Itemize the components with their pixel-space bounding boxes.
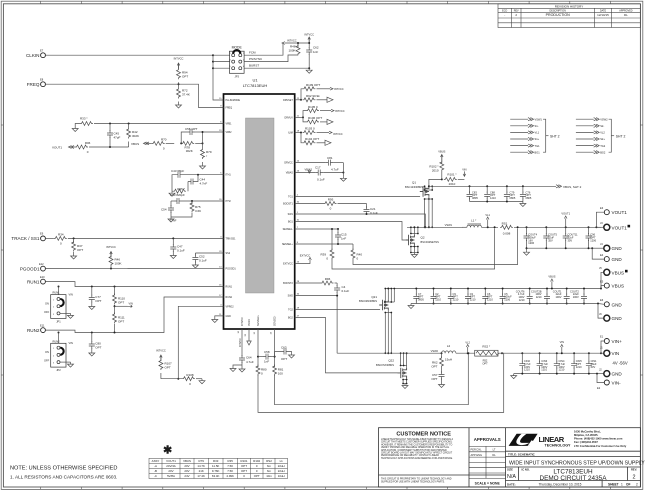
svg-text:GND: GND [612, 316, 623, 321]
svg-text:VBUS: VBUS [612, 270, 625, 275]
wire Q22 source bus to ground [406, 378, 408, 383]
svg-text:NOTE: UNLESS OTHERWISE SPECIFI: NOTE: UNLESS OTHERWISE SPECIFIED [10, 465, 117, 471]
resistor R106 OPT [303, 117, 306, 122]
transistor Q1 BSC123N08NS [420, 186, 429, 196]
svg-text:C58: C58 [264, 350, 270, 354]
svg-text:S2+: S2+ [600, 137, 605, 141]
capacitor C63 OPT [275, 352, 281, 357]
svg-text:1: 1 [53, 300, 54, 302]
svg-text:TECHNOLOGY APPLICATIONS ENGINE: TECHNOLOGY APPLICATIONS ENGINEERING FOR … [381, 457, 453, 460]
svg-text:C17: C17 [315, 166, 321, 170]
open arrow (R106) [327, 119, 333, 124]
svg-text:R104 OPT: R104 OPT [305, 137, 319, 141]
capacitor C79 OPT 0805 [506, 186, 508, 193]
wire VBUS rail [386, 288, 601, 290]
svg-text:0.1uF: 0.1uF [317, 177, 325, 181]
capacitor C4 0.1uF boost2 [336, 283, 338, 286]
wire VSW2 rail [337, 352, 441, 354]
svg-text:C62: C62 [313, 46, 319, 50]
terminal E6 GND [598, 303, 604, 306]
INTVCC rail to R48/C62 [285, 42, 309, 44]
svg-text:VIN-: VIN- [612, 381, 622, 386]
svg-text:0805: 0805 [526, 196, 532, 200]
power flag INTVCC [308, 37, 311, 43]
capacitor C5 100uF 1206 [500, 289, 506, 304]
svg-text:FREQ: FREQ [27, 82, 40, 87]
resistor R103 0 [303, 131, 316, 135]
svg-text:C53 820pF: C53 820pF [170, 193, 185, 197]
svg-text:3: 3 [53, 363, 54, 365]
wire VFB1 [94, 123, 224, 125]
svg-text:15uH: 15uH [445, 358, 452, 362]
svg-text:LTC7813EUH: LTC7813EUH [243, 83, 268, 88]
svg-text:DESCRIPTION: DESCRIPTION [550, 9, 567, 12]
resistor R40 0 (sense1+ filter) [352, 244, 354, 250]
wire FREQ [45, 84, 223, 107]
svg-text:PGOOD1: PGOOD1 [226, 267, 237, 270]
svg-text:R102: R102 [253, 459, 260, 463]
svg-text:CLKIN: CLKIN [26, 53, 40, 58]
resistor R06 0 [75, 145, 88, 149]
wire SW2 [295, 296, 337, 354]
open arrow (R104) [325, 140, 331, 145]
terminal J3 VOUT1 [596, 226, 603, 228]
svg-text:R06: R06 [85, 141, 91, 145]
svg-text:R106 OPT: R106 OPT [308, 116, 322, 120]
svg-text:4: 4 [243, 59, 244, 61]
svg-text:35V: 35V [568, 238, 573, 242]
svg-text:1nF: 1nF [341, 237, 346, 241]
wire TG1 to Q1 gate [295, 196, 420, 198]
svg-text:RUN1: RUN1 [52, 291, 60, 295]
svg-text:100K: 100K [288, 49, 295, 53]
capacitor C44 4.7nF [196, 175, 198, 182]
resistor R108 0 [182, 377, 195, 381]
svg-text:APPROVALS: APPROVALS [474, 437, 501, 442]
svg-text:CUSTOMER NOTICE: CUSTOMER NOTICE [396, 432, 451, 438]
svg-text:10uH: 10uH [278, 474, 285, 478]
svg-text:PRODUCTION: PRODUCTION [546, 13, 571, 17]
power flag VBUS [551, 282, 553, 289]
svg-text:LINEAR TECHNOLOGY HAS MADE A B: LINEAR TECHNOLOGY HAS MADE A BEST EFFORT… [381, 438, 453, 441]
terminal E1 VIN+ [601, 341, 604, 353]
wire VOUT gnd rail [527, 247, 593, 249]
resistor R46 100K [109, 255, 113, 266]
svg-text:FREQ: FREQ [226, 107, 233, 110]
svg-text:302K: 302K [186, 149, 193, 153]
open arrow (R92) [327, 97, 333, 102]
capacitor COUT5 22uF [545, 227, 547, 234]
svg-text:SUPPLIED FOR USE WITH LINEAR T: SUPPLIED FOR USE WITH LINEAR TECHNOLOGY … [381, 480, 445, 483]
wire bus to PLLIN/MODE pin [213, 68, 224, 100]
svg-text:EXTVCC: EXTVCC [300, 253, 311, 257]
svg-text:R33: R33 [213, 459, 219, 463]
svg-text:CIRCUIT BOARD LAYOUT MAY SIGNI: CIRCUIT BOARD LAYOUT MAY SIGNIFICANTLY A… [381, 452, 453, 455]
svg-text:63.4K: 63.4K [212, 474, 220, 478]
wire BOOST2 / resistor R96 [295, 282, 321, 284]
svg-text:1206: 1206 [528, 241, 534, 245]
capacitor C64 4.7uF [239, 355, 245, 363]
svg-text:OPT: OPT [165, 366, 171, 370]
svg-text:BG1: BG1 [535, 150, 541, 154]
svg-text:OF: OF [626, 483, 630, 487]
svg-text:BURST: BURST [249, 64, 259, 68]
U1 bottom pin names (rotated) [241, 315, 277, 326]
svg-text:INTVCC: INTVCC [156, 349, 166, 353]
wire sense2+ kelvin loop (outer) [258, 353, 504, 412]
svg-text:INTVCC: INTVCC [174, 57, 184, 61]
capacitor C62 1nF [308, 43, 310, 48]
svg-text:THIS CIRCUIT IS PROPRIETARY TO: THIS CIRCUIT IS PROPRIETARY TO LINEAR TE… [381, 478, 452, 481]
svg-text:INTVCC: INTVCC [241, 317, 244, 326]
svg-text:ITH1: ITH1 [226, 174, 232, 177]
svg-text:E12: E12 [39, 262, 44, 266]
svg-text:OPT: OPT [281, 357, 287, 361]
svg-text:OPT: OPT [95, 299, 101, 303]
svg-text:VOUT1: VOUT1 [612, 210, 628, 215]
svg-text:2: 2 [243, 53, 244, 55]
svg-text:1210: 1210 [576, 365, 582, 369]
svg-text:R101 *: R101 * [447, 173, 457, 177]
svg-text:C55 OPT: C55 OPT [185, 127, 198, 131]
ground ITH2 network [168, 217, 174, 222]
svg-text:OPT: OPT [182, 75, 188, 79]
capacitor C96 OPT 1206 [588, 227, 590, 234]
svg-text:4.7nF: 4.7nF [200, 182, 208, 186]
svg-text:DEMO CIRCUIT 2435A: DEMO CIRCUIT 2435A [539, 475, 607, 482]
svg-text:R96: R96 [325, 277, 331, 281]
svg-text:6m: 6m [267, 464, 272, 468]
capacitor C57 OPT [439, 372, 445, 380]
capacitor C55 OPT [181, 132, 187, 143]
wire SW1 [295, 214, 426, 227]
resistor R94 OPT [177, 68, 181, 79]
wire DRVUV [295, 116, 303, 118]
svg-text:OPT: OPT [95, 346, 101, 350]
svg-text:TG2: TG2 [288, 308, 293, 311]
terminal E4 GND [592, 248, 604, 259]
wire R107 to R108 [161, 378, 182, 380]
svg-text:C64: C64 [246, 356, 252, 360]
svg-text:1210: 1210 [524, 368, 530, 372]
svg-text:ON: ON [45, 302, 49, 306]
capacitor CIN3 4.7uF 100V [537, 353, 543, 373]
capacitor C2 OPT 1210 [431, 289, 437, 304]
node VL1 flag [482, 226, 499, 228]
svg-text:VSW1: VSW1 [535, 117, 543, 121]
svg-text:0805: 0805 [418, 298, 424, 302]
zone ticks left/right [1, 124, 3, 126]
svg-text:1206: 1206 [590, 238, 596, 242]
svg-text:R79: R79 [199, 459, 205, 463]
wire TG2 to Q21 gate [295, 308, 380, 310]
svg-text:SENSE2-: SENSE2- [274, 316, 277, 326]
svg-text:VIN: VIN [69, 292, 73, 296]
wire BG2 to Q22 gate [295, 318, 398, 373]
svg-text:TG1: TG1 [288, 196, 293, 199]
svg-text:100V: 100V [555, 295, 561, 299]
svg-text:1210: 1210 [435, 298, 441, 302]
node VL2 flag [456, 352, 475, 354]
CIN labels [524, 359, 597, 371]
capacitor C7 OPT 0805 [413, 289, 419, 304]
svg-text:TG1: TG1 [535, 144, 541, 148]
wire sense2- kelvin loop (inner) [275, 353, 470, 405]
terminal J4 GND [592, 247, 603, 249]
wire VFB2 [203, 132, 224, 143]
svg-text:U1: U1 [252, 78, 258, 83]
svg-text:LTC Confidential-For Customer: LTC Confidential-For Customer Use Only [574, 444, 627, 448]
svg-text:SHT 2: SHT 2 [550, 134, 560, 138]
svg-text:GND: GND [612, 257, 623, 262]
capacitor C80 OPT [91, 333, 93, 343]
svg-text:PGOOD1: PGOOD1 [20, 266, 40, 271]
ground below R72 [176, 103, 182, 108]
ground below R37 [71, 254, 77, 259]
wire Q22 drain bus to VSW2 [406, 353, 408, 368]
svg-text:VBUS: VBUS [131, 142, 139, 146]
svg-text:✱: ✱ [163, 445, 172, 457]
svg-text:DL: DL [624, 13, 628, 17]
svg-text:VBUS: VBUS [612, 284, 625, 289]
ground below C62 [306, 68, 312, 73]
wire JP3 left bus [212, 55, 214, 68]
wire VBUS gnd rail [411, 303, 598, 305]
wire VSW1 rail to L1 [407, 226, 463, 228]
svg-text:CIRCUIT THAT MEETS CUSTOMER-SU: CIRCUIT THAT MEETS CUSTOMER-SUPPLIED SPE… [381, 441, 453, 444]
svg-text:R35 *: R35 * [177, 187, 185, 191]
svg-text:VL2: VL2 [600, 131, 605, 135]
svg-text:VOUT1: VOUT1 [52, 146, 62, 150]
svg-text:C63: C63 [281, 346, 287, 350]
svg-text:E4: E4 [600, 253, 604, 257]
wire JP3 left pins [213, 54, 230, 56]
resistor R102* 2010 [441, 171, 443, 179]
svg-text:OPT: OPT [431, 365, 437, 369]
terminal J6 GND [598, 304, 603, 319]
wire SS1 [68, 237, 224, 239]
VBUS cap labels [418, 289, 579, 301]
svg-text:BSC042NE7NS: BSC042NE7NS [421, 240, 440, 244]
svg-text:VERIFY PROPER AND RELIABLE OPE: VERIFY PROPER AND RELIABLE OPERATION IN … [381, 446, 450, 449]
svg-text:APPLICATION. COMPONENT SUBSTI: APPLICATION. COMPONENT SUBSTITUTION AND … [381, 449, 447, 452]
svg-text:S2-: S2- [600, 124, 604, 128]
svg-text:SENSE1-: SENSE1- [283, 228, 293, 231]
ground at JP2 pin3 [60, 361, 71, 363]
svg-text:ECO: ECO [502, 9, 507, 12]
power flag VIN (rail) [561, 347, 563, 353]
svg-text:R103 0: R103 0 [305, 127, 315, 131]
resistor R107 OPT [159, 359, 163, 370]
terminal J2 GND [597, 373, 603, 375]
svg-text:E3: E3 [600, 206, 604, 210]
svg-text:VFB1: VFB1 [226, 123, 233, 126]
svg-text:INTVCC: INTVCC [239, 338, 242, 347]
svg-text:OPT: OPT [241, 469, 247, 473]
svg-text:S1-: S1- [535, 124, 539, 128]
svg-text:BSC123N08NS: BSC123N08NS [405, 185, 423, 189]
svg-text:47pF: 47pF [114, 136, 121, 140]
svg-text:INTVCC: INTVCC [106, 245, 116, 249]
svg-text:GND: GND [612, 246, 623, 251]
wire to R78 [166, 142, 175, 144]
svg-text:1: 1 [53, 348, 54, 350]
capacitor COUT11 22uF [565, 227, 567, 234]
svg-text:R34: R34 [58, 233, 64, 237]
svg-text:VOUT1: VOUT1 [166, 459, 176, 463]
capacitor CIN1 68uF 63V [586, 353, 592, 373]
svg-text:VIN: VIN [612, 351, 620, 356]
svg-text:FCM: FCM [249, 51, 256, 55]
ground right of R108 [199, 379, 205, 384]
svg-text:R108: R108 [186, 373, 194, 377]
wire SENSE1+ [295, 243, 353, 245]
svg-text:SW1: SW1 [288, 213, 294, 216]
resistor RS1 0.008 (shunt) [500, 225, 513, 229]
terminal E3 VOUT1 [596, 212, 604, 227]
capacitor C3 OPT 1210 [465, 289, 471, 304]
svg-text:DL: DL [492, 453, 496, 457]
JP3 shunt on pins 1-2 [233, 50, 240, 53]
svg-text:-C: -C [154, 474, 157, 478]
svg-text:VOUT1: VOUT1 [561, 211, 570, 215]
svg-text:IC NO.: IC NO. [522, 468, 530, 472]
wire Q2 drain bus to VSW1 [413, 227, 415, 235]
svg-text:1: 1 [621, 483, 623, 487]
svg-text:L1 *: L1 * [471, 219, 477, 223]
svg-text:RS2 *: RS2 * [482, 345, 491, 349]
svg-text:PGND: PGND [248, 319, 251, 326]
transistor Q2 BSC042NE7NS [405, 235, 414, 245]
svg-text:20V: 20V [168, 469, 173, 473]
capacitor C54 27nF [170, 201, 172, 206]
svg-text:11.5K: 11.5K [212, 464, 219, 468]
svg-text:OPT: OPT [431, 377, 437, 381]
svg-text:5V/8A: 5V/8A [167, 474, 175, 478]
svg-text:PS/SYNC: PS/SYNC [249, 57, 263, 61]
wire RUN2 [45, 297, 223, 333]
svg-text:VBIAS: VBIAS [286, 172, 293, 175]
svg-text:RUN1: RUN1 [226, 286, 233, 289]
svg-text:APP ENG: APP ENG [471, 453, 482, 457]
svg-text:C81: C81 [327, 156, 333, 160]
ground below C64 [239, 367, 245, 372]
resistor R39 0 (sense1- filter) [331, 229, 333, 250]
svg-text:RS1: RS1 [502, 222, 508, 226]
svg-text:100V: 100V [573, 295, 579, 299]
svg-text:12/10/15: 12/10/15 [597, 13, 609, 17]
capacitor C15 1nF [337, 229, 339, 233]
svg-text:Phone: (408)432-1900 www.li: Phone: (408)432-1900 www.linear.com [574, 436, 623, 440]
op-amp U1 main IC body [224, 94, 295, 329]
svg-text:L1: L1 [280, 459, 284, 463]
svg-text:TECHNOLOGY: TECHNOLOGY [545, 444, 572, 448]
svg-text:JP1: JP1 [56, 320, 61, 324]
svg-text:VFB2: VFB2 [226, 131, 233, 134]
svg-text:R95: R95 [328, 198, 334, 202]
svg-text:0.1uF: 0.1uF [342, 289, 350, 293]
svg-text:VBUS: VBUS [183, 459, 191, 463]
svg-text:1210: 1210 [541, 368, 547, 372]
capacitor C21 0.1uF boost1 [366, 204, 368, 208]
svg-text:17.4K: 17.4K [197, 474, 205, 478]
capacitor CIN4 4.7uF 100V [554, 353, 560, 373]
svg-text:SHT 2: SHT 2 [616, 134, 626, 138]
wire VIN rail [498, 352, 601, 354]
wire VPRG2 [178, 306, 223, 378]
svg-text:22uH: 22uH [278, 464, 285, 468]
wire BOOST1 / resistor R95 0 [295, 203, 324, 205]
power flag INTVCC (R103) [329, 131, 332, 134]
svg-text:INTVCC: INTVCC [333, 132, 343, 136]
node dots JP3 bus [212, 54, 214, 56]
svg-text:14.7K: 14.7K [197, 464, 205, 468]
svg-text:REVISION HISTORY: REVISION HISTORY [555, 4, 583, 8]
svg-text:HOWEVER, IT REMAINS THE CUSTOM: HOWEVER, IT REMAINS THE CUSTOMER'S RESPO… [381, 443, 453, 446]
resistor RS2* (shunt) [475, 350, 498, 356]
svg-text:E2: E2 [597, 386, 601, 390]
capacitor C45 47pF [109, 124, 111, 132]
ground stub left of C64 [233, 365, 242, 367]
svg-text:R92 90.9k: R92 90.9k [306, 94, 320, 98]
svg-text:VL1: VL1 [485, 213, 490, 217]
capacitor COUT2B 100V [544, 289, 550, 304]
title block outline [379, 428, 641, 487]
assembly options table [149, 458, 288, 478]
svg-text:100K: 100K [115, 262, 122, 266]
capacitor C6 OPT 1210 [482, 289, 488, 304]
wire OPT caps bottom rail [470, 201, 523, 203]
svg-text:Q22: Q22 [388, 359, 394, 363]
svg-text:Thursday, December 10, 2015: Thursday, December 10, 2015 [539, 483, 582, 487]
capacitor COUT2 22uF 100V [581, 289, 587, 304]
svg-text:DRVSET: DRVSET [283, 99, 293, 102]
svg-text:E11: E11 [40, 323, 45, 327]
capacitor C83 OPT 0805 [469, 186, 471, 193]
svg-text:PLLIN/MODE: PLLIN/MODE [226, 99, 241, 102]
svg-text:TG2: TG2 [600, 144, 606, 148]
wire ILIM [295, 132, 301, 134]
svg-text:RUN1: RUN1 [27, 279, 40, 284]
resistor R34 0 [45, 237, 53, 239]
svg-text:ILIM: ILIM [288, 132, 293, 135]
svg-text:VPRG2: VPRG2 [226, 305, 235, 308]
wire EXTVCC flag [295, 260, 310, 264]
svg-text:BOOST1: BOOST1 [283, 203, 293, 206]
svg-text:4.99K: 4.99K [226, 474, 234, 478]
svg-text:BSC072N08NS: BSC072N08NS [376, 363, 394, 367]
ground VOUT rail [524, 250, 530, 255]
svg-text:DRVCC: DRVCC [284, 162, 293, 165]
VIN flag right of R110 [115, 305, 129, 307]
resistor R110 OPT [114, 287, 116, 296]
svg-text:R105 0: R105 0 [308, 105, 318, 109]
svg-text:1nF: 1nF [313, 50, 318, 54]
svg-text:EXTVCC: EXTVCC [283, 263, 293, 266]
svg-text:R101: R101 [241, 459, 248, 463]
U1 left pin names [226, 99, 241, 318]
svg-text:INTVCC: INTVCC [334, 87, 344, 91]
svg-text:20V: 20V [184, 464, 189, 468]
svg-text:ITH2: ITH2 [226, 200, 232, 203]
node VBUS SHT2 arrow [556, 185, 562, 188]
svg-text:-A: -A [154, 464, 157, 468]
wire Q2 source bus to ground [413, 245, 415, 252]
wire PGND pin with down arrow [248, 329, 250, 341]
svg-text:APPROVED: APPROVED [619, 9, 633, 12]
ground for C81/C17 [342, 163, 344, 177]
wire Q21 drain bus to VBUS rail [387, 289, 389, 300]
